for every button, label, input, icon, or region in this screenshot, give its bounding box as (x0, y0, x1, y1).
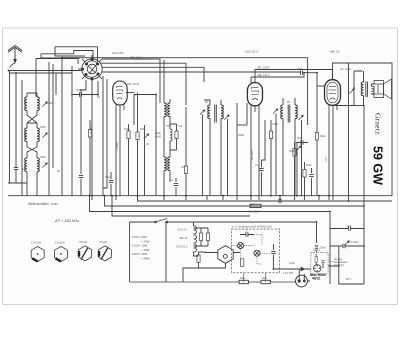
capacitor C6 (259, 169, 263, 171)
svg-text:20pF: 20pF (297, 67, 303, 71)
capacitor C4 (174, 184, 178, 186)
wire tube D pins (328, 105, 330, 196)
svg-text:59 GW: 59 GW (371, 146, 385, 185)
junction dots main (8, 57, 365, 270)
resistor R15 (239, 280, 248, 283)
svg-text:5nF: 5nF (297, 136, 302, 140)
resistor R3 (136, 132, 139, 140)
svg-text:0.1µF: 0.1µF (105, 175, 112, 179)
capacitor C8 (309, 175, 313, 177)
svg-text:300: 300 (181, 165, 186, 169)
svg-text:700: 700 (166, 124, 171, 128)
svg-text:1,9V 3W: 1,9V 3W (283, 271, 293, 275)
svg-text:0.1: 0.1 (255, 163, 259, 167)
left coil block pair 3 (25, 158, 27, 172)
svg-text:1MΩ: 1MΩ (124, 127, 130, 131)
dotted UY box (311, 253, 328, 275)
capacitor C15 with arrow (343, 244, 345, 248)
wire tube B pins (115, 104, 117, 196)
svg-text:UCH 21 I: UCH 21 I (112, 51, 125, 55)
svg-text:2.10 kHz: 2.10 kHz (31, 241, 42, 245)
svg-text:SEK 123 A: SEK 123 A (257, 73, 270, 77)
svg-text:UCH 21 II: UCH 21 II (245, 50, 258, 54)
wire tube D top (333, 63, 355, 80)
vertical right feeds (363, 106, 365, 247)
resistor R12 (206, 233, 209, 241)
svg-text:100: 100 (23, 99, 27, 104)
trimmer T6 (224, 115, 229, 120)
wire mains line (130, 221, 156, 223)
capacitor 40pF top left (80, 92, 82, 96)
resistor R9 volume (303, 170, 306, 178)
tone arrow (349, 89, 354, 94)
svg-text:0.1: 0.1 (170, 178, 174, 182)
left coil block pair 1 (25, 97, 27, 111)
svg-text:12µF: 12µF (289, 261, 295, 265)
resistor R8 (293, 149, 296, 157)
svg-text:2000: 2000 (40, 155, 46, 159)
wire tube C top (255, 70, 333, 83)
wire antenna horizontals (10, 70, 83, 72)
trimmer T3 (42, 163, 47, 168)
svg-text:m. d. Drucktasten (2µF+470kΩ): m. d. Drucktasten (2µF+470kΩ) (2µF) (232, 226, 272, 229)
hexagon H3 (79, 246, 92, 261)
mains plug (296, 275, 308, 287)
svg-text:25nF: 25nF (320, 246, 326, 250)
resistor R10 electrolytic (250, 204, 261, 207)
capacitor C13 25nF (315, 245, 318, 247)
hexagon H1 (31, 247, 44, 262)
capacitor C14 (349, 226, 351, 230)
trimmer T2 (42, 133, 47, 138)
trimmer T4 (144, 134, 149, 139)
wire tube A bottom drops (91, 83, 93, 196)
capacitor C ant (14, 168, 18, 170)
tube V3 UCH21 II oval (247, 83, 262, 106)
svg-text:2000: 2000 (23, 132, 27, 138)
svg-text:UBL 21: UBL 21 (179, 236, 188, 240)
wire output section (354, 71, 363, 106)
capacitor C5 coupling (301, 71, 303, 75)
capacitor C11 (271, 252, 275, 254)
switch S1 (156, 219, 168, 223)
trimmer T1 (42, 102, 47, 107)
wire right bottom (329, 211, 331, 284)
heater chain coils (194, 226, 197, 234)
resistor R16 (261, 280, 270, 283)
tube V2 oval small (113, 81, 128, 105)
potentiometer arrow (296, 142, 298, 196)
svg-text:2000: 2000 (40, 125, 46, 129)
coil parallel IFT1 (170, 129, 172, 141)
svg-text:40/12: 40/12 (312, 277, 320, 281)
trimmer T5 (200, 110, 205, 115)
resistor R17 (315, 257, 317, 263)
svg-text:ZF = 452 kHz: ZF = 452 kHz (54, 218, 79, 223)
trimmer T7b (298, 115, 303, 120)
svg-text:≈ 28W: ≈ 28W (141, 257, 150, 261)
svg-text:4µF: 4µF (347, 224, 352, 228)
text voltage table (132, 235, 150, 261)
IF transformer 1 bottom coil (164, 157, 166, 171)
svg-text:64,98,10: 64,98,10 (334, 264, 344, 267)
wire left verticals (9, 71, 11, 184)
trimmer T7 (273, 109, 278, 114)
svg-text:70kΩ: 70kΩ (272, 122, 278, 126)
svg-text:UCH 21 I: UCH 21 I (177, 228, 188, 232)
capacitor C9 (279, 199, 281, 203)
ballast hexagon (218, 246, 233, 264)
svg-text:400pF: 400pF (47, 101, 55, 105)
resistor R5 (184, 166, 187, 174)
antenna (8, 46, 22, 68)
wire extra verticals (102, 76, 104, 196)
tube V5 UY21 socket (314, 265, 321, 272)
lamp L2 (254, 250, 260, 256)
wire tube A outputs right (102, 59, 160, 103)
svg-text:1µF: 1µF (250, 202, 255, 206)
svg-text:≈0.05µF: ≈0.05µF (349, 240, 359, 244)
dashed internal wires (231, 229, 270, 264)
capacitor C10 (246, 232, 248, 236)
svg-text:4 nach: 4 nach (115, 142, 119, 150)
resistor R2 (127, 131, 130, 139)
svg-text:UCH 21 II: UCH 21 II (176, 245, 188, 249)
dashed panel box (231, 229, 279, 273)
resistor R6 70k (269, 131, 272, 139)
hexagon H4 (99, 246, 112, 261)
svg-text:1MΩ: 1MΩ (306, 163, 312, 167)
IF transformer 2 (208, 105, 210, 119)
wire main bus (8, 195, 392, 197)
svg-text:50pF: 50pF (155, 131, 161, 135)
svg-text:50Ω: 50Ω (262, 276, 267, 280)
svg-text:10kΩ: 10kΩ (320, 134, 326, 138)
svg-text:50Ω: 50Ω (240, 276, 245, 280)
svg-text:UBL 21: UBL 21 (330, 50, 340, 54)
svg-text:92 V: 92 V (346, 277, 352, 281)
svg-text:Graetz: Graetz (374, 113, 383, 135)
wire B+ lines stepped (138, 196, 393, 201)
wire ticks below bus (92, 196, 333, 200)
capacitor C3 (109, 181, 113, 183)
tube V1 UCH21 socket view (78, 55, 102, 83)
svg-text:452 kHz: 452 kHz (250, 150, 254, 160)
resistor R13 (197, 255, 200, 263)
svg-text:SEK 123 A: SEK 123 A (130, 56, 143, 60)
svg-text:0.3MΩ: 0.3MΩ (89, 126, 93, 134)
svg-text:+2 V: +2 V (324, 156, 328, 162)
svg-text:ton. 30kΩ: ton. 30kΩ (340, 67, 351, 71)
hexagon H2 (55, 247, 68, 262)
resistor R11 (199, 233, 202, 241)
capacitor C7 (301, 140, 303, 144)
svg-text:Wellenschalter : Kurz: Wellenschalter : Kurz (28, 202, 58, 206)
resistor R1 0.3M (88, 130, 91, 138)
output transformer (361, 82, 363, 96)
svg-text:2MΩ: 2MΩ (289, 149, 295, 153)
IF transformer 3 (281, 105, 283, 119)
svg-text:70 kHz: 70 kHz (99, 240, 108, 244)
wire grid loop cluster above tube A (55, 47, 98, 62)
resistor R4 (175, 131, 178, 139)
svg-text:40pF: 40pF (76, 88, 82, 92)
wire tube C pins (250, 105, 252, 196)
wire bottom bus (130, 281, 296, 283)
IF transformer 1 top coil (164, 103, 166, 117)
resistor R7 (315, 133, 318, 141)
capacitor C12 (321, 261, 324, 263)
lamp L1 (238, 243, 244, 249)
tube V4 UBL21 (325, 80, 341, 106)
fuse arrow (301, 267, 305, 270)
resistor R14 (241, 259, 244, 267)
svg-text:1nF: 1nF (22, 167, 27, 171)
svg-text:50kΩ: 50kΩ (155, 135, 161, 139)
svg-text:50k: 50k (140, 127, 145, 131)
wire x81 vertical (80, 90, 82, 174)
speaker (374, 79, 392, 99)
wire bus verticals to coils (35, 59, 37, 98)
svg-text:700: 700 (178, 124, 183, 128)
svg-text:2.00 kHz: 2.00 kHz (55, 241, 66, 245)
capacitor C2b (79, 176, 83, 178)
left coil block pair 2 (25, 128, 27, 142)
svg-text:MIK 70mA: MIK 70mA (127, 82, 139, 86)
svg-text:703 Hz: 703 Hz (79, 240, 88, 244)
svg-text:50+50µF: 50+50µF (249, 210, 260, 214)
svg-text:30kΩ: 30kΩ (238, 133, 244, 137)
svg-text:SEL 123 B: SEL 123 B (257, 66, 270, 70)
wire coil block connectors (27, 115, 37, 152)
text heater labels (176, 228, 188, 249)
